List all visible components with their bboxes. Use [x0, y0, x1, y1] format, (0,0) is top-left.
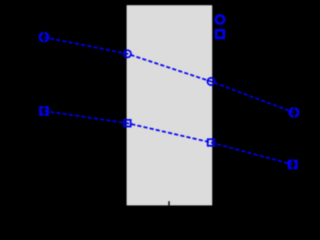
series 1 marker point 4: [290, 108, 298, 116]
series 2 marker point 3: [208, 139, 215, 146]
compression slit artifact on marker 1-4: [293, 106, 295, 118]
series 1 marker point 2: [124, 50, 131, 57]
compression slit artifact on marker 2-1: [43, 106, 45, 116]
series 2 marker point 4: [289, 161, 296, 168]
legend marker square: [216, 30, 224, 38]
compression slit artifact on marker 1-1: [43, 31, 45, 43]
series 1 dashed line (circles): [44, 37, 294, 112]
series 2 marker point 2: [124, 120, 131, 127]
axvspan shaded band: [127, 5, 213, 205]
series 2 dashed line (squares): [44, 111, 293, 165]
series 1 marker point 3: [207, 78, 214, 85]
legend marker circle: [216, 15, 224, 23]
x-axis tick: [168, 201, 170, 205]
series 2 marker point 1: [40, 107, 47, 114]
series 1 marker point 1: [40, 33, 48, 41]
compression slit artifact on marker 2-4: [292, 160, 294, 170]
